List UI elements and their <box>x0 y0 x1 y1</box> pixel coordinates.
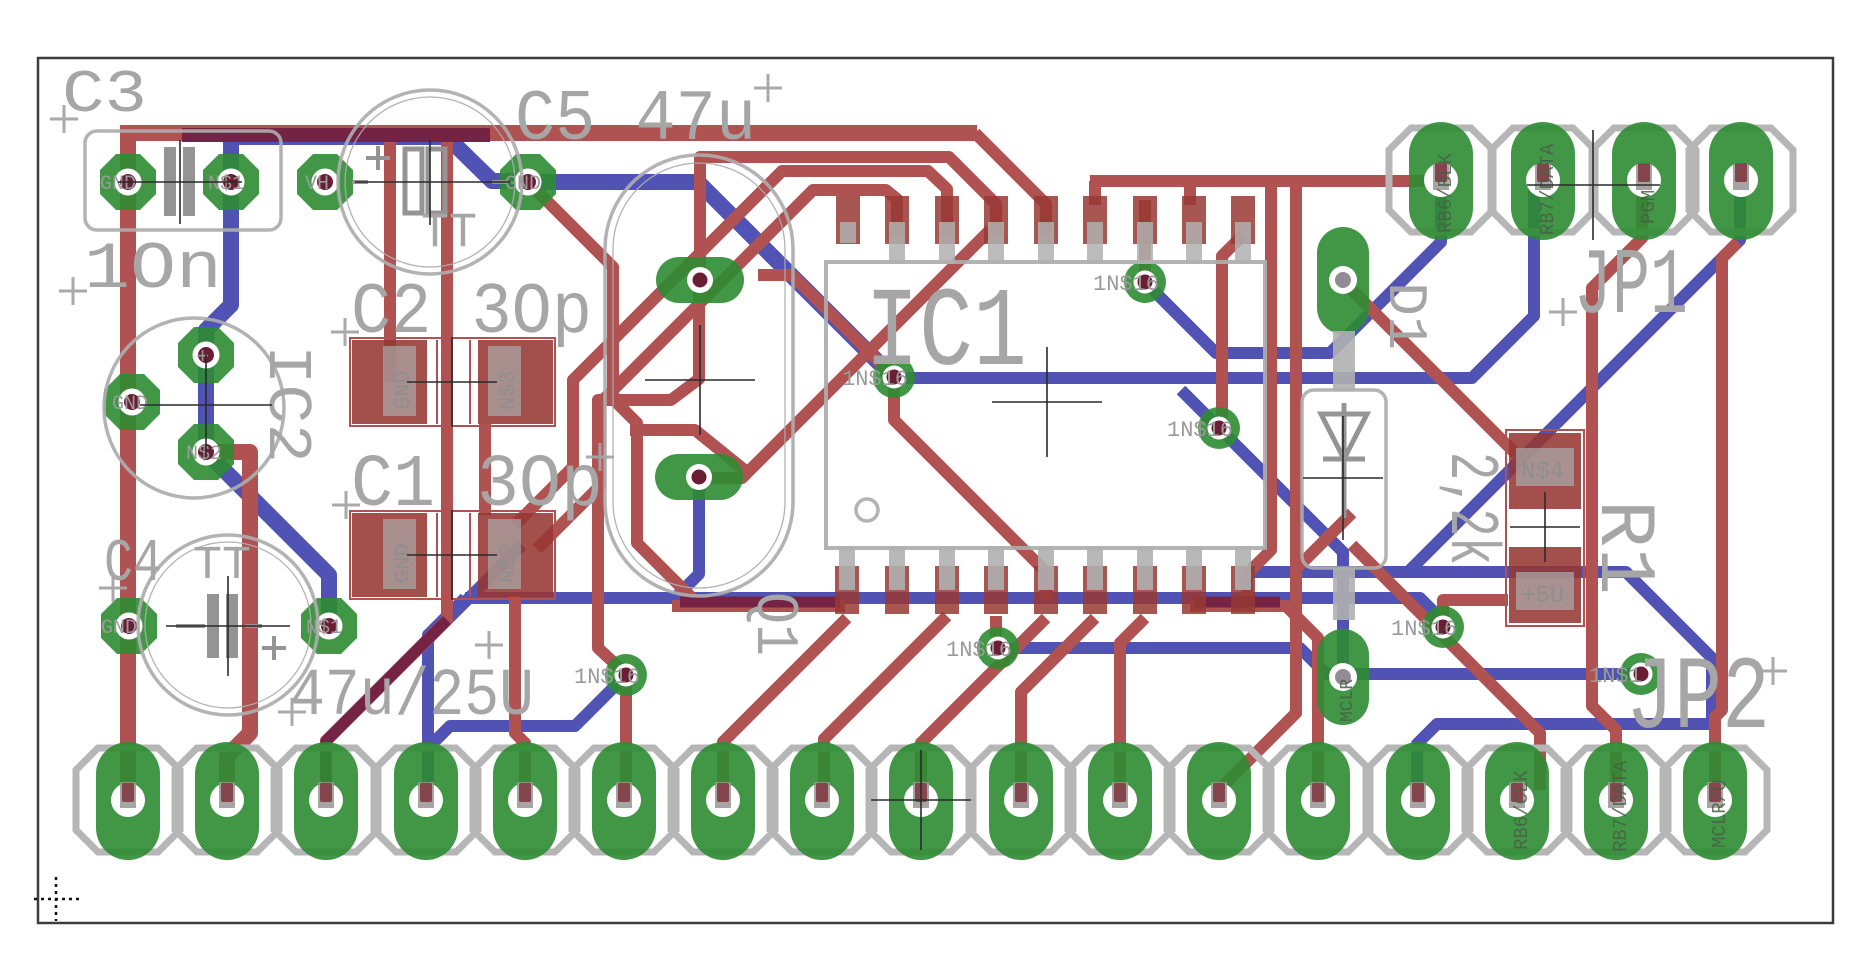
IC1 pin 9 pad <box>1231 566 1255 614</box>
capacitor C2 pads <box>350 338 555 426</box>
IC1 pin 5 pad <box>1034 566 1058 614</box>
node JP1 origin cross <box>1527 130 1660 240</box>
capacitor C3 symbol plates <box>164 147 176 216</box>
svg-text:GND: GND <box>101 617 137 640</box>
wire: red via894 stub up-left <box>758 275 894 377</box>
wire: red JP1 pad3 to JP2 pad16 <box>1592 185 1642 790</box>
node JP2 origin cross <box>871 750 971 850</box>
wire: red JP2 pad15 to via1443 <box>1352 545 1540 790</box>
node C4 origin cross <box>166 576 290 676</box>
wire: red diagonal bundle to IC1 pin3 <box>515 171 947 525</box>
wire: red top band tail into IC1 pin5 <box>975 133 1046 235</box>
svg-text:1N$16: 1N$16 <box>842 367 908 392</box>
svg-text:N$2: N$2 <box>496 543 521 583</box>
wire: red via894 to IC1 pin5 bottom <box>894 377 1046 600</box>
svg-text:R1: R1 <box>1577 500 1668 595</box>
svg-text:+: + <box>196 345 209 370</box>
wire: red IC1 pin7 top to via1145 <box>1139 200 1151 282</box>
wire: red diagonal bundle to IC1 pin2 <box>537 190 897 549</box>
wire: red IC1 pin4 bottom to via998 <box>990 616 1002 648</box>
svg-text:JP1: JP1 <box>1574 235 1688 341</box>
node C3 origin cross <box>118 140 242 224</box>
IC1 pin 17 pad <box>885 196 909 244</box>
crystal Q1 top pad <box>656 257 744 303</box>
svg-text:C5 47u: C5 47u <box>515 79 756 161</box>
wire: blue C3.N$1 to C5.GND top bus (wide) <box>231 137 528 188</box>
node IC1 origin cross <box>992 347 1102 457</box>
JP1 pad octagon outlines <box>1389 128 1793 232</box>
svg-text:1On: 1On <box>84 232 222 307</box>
wire: red JP1 pad4 to JP2 pad17 <box>1715 242 1738 790</box>
diode D1 symbol <box>1321 403 1367 518</box>
capacitor C4 symbol plates <box>207 594 219 658</box>
IC1 pin 2 pad <box>885 566 909 614</box>
svg-text:RB7/DATA: RB7/DATA <box>1537 143 1559 235</box>
wire: blue C3.N$1 down to IC2 (wide) <box>206 188 231 452</box>
wire: blue via1219 to MCLR pad <box>1219 428 1343 677</box>
capacitor C4 outline <box>138 535 318 715</box>
IC1 pin 14 pad <box>1034 196 1058 244</box>
node IC2 origin cross <box>140 355 272 455</box>
wire: red C5.GND diagonal to under-IC bus and JP2 pad13 <box>530 184 1318 790</box>
IC1 pin 15 pad <box>984 196 1008 244</box>
wire: red C5 vertical to C2.GND <box>384 133 396 382</box>
via N$6 d <box>977 627 1019 669</box>
wire: red IC1 pin3 bottom to JP2 pad8 <box>824 616 947 790</box>
JP2 pad hole stubs <box>122 783 1721 802</box>
wire: red GND rail left (wide) <box>120 125 136 790</box>
IC1 pin 1 pad <box>835 566 859 614</box>
svg-text:2,2k: 2,2k <box>1430 452 1509 565</box>
crystal Q1 outline <box>605 155 793 596</box>
wire: blue via1219 stub <box>1181 390 1219 428</box>
svg-text:TT: TT <box>193 540 251 593</box>
svg-text:1N$16: 1N$16 <box>574 665 640 690</box>
wire: red IC1 pin6 bottom to JP2 pad10 <box>1021 618 1095 790</box>
via N$6 b <box>1124 261 1166 303</box>
via N$6 c <box>1198 407 1240 449</box>
svg-text:JP2: JP2 <box>1626 641 1770 759</box>
IC1 pin stubs top <box>840 222 1251 264</box>
svg-text:N$2: N$2 <box>186 443 222 466</box>
IC2 pad in <box>178 327 234 383</box>
IC1 pin 3 pad <box>935 566 959 614</box>
wire: overlap red+blue under-IC bus <box>680 597 1280 608</box>
IC2 pad out <box>178 424 234 480</box>
JP1 pad hole stubs <box>1435 163 1747 182</box>
diode D1 top pad <box>1317 227 1369 334</box>
svg-text:C1 3Op: C1 3Op <box>351 444 603 528</box>
svg-text:MCLR: MCLR <box>1338 679 1358 722</box>
wire: red IC2 out to JP2 pad2 (wide) <box>206 452 250 792</box>
wire: red C1.N$2 to JP2 pad5 <box>515 595 525 792</box>
IC1 pin 10 pad <box>1231 196 1255 244</box>
svg-text:D1: D1 <box>1373 282 1437 350</box>
IC1 pin 12 pad <box>1133 196 1157 244</box>
regulator IC2 outline <box>104 318 284 498</box>
IC2 pad GND <box>104 374 160 430</box>
wire: red IC1 pin1 bottom to JP2 pad7 <box>723 618 847 790</box>
capacitor C1 pads <box>350 511 555 599</box>
via N$6 g <box>1620 653 1662 695</box>
capacitor C4 pad GND <box>101 598 157 654</box>
resistor R1 pads <box>1506 430 1584 626</box>
via N$6 f <box>1422 606 1464 648</box>
JP1 pad holes <box>1424 163 1458 197</box>
wire: overlap red+blue top band <box>182 128 490 142</box>
wire: red crystal top pad to via626 <box>598 282 699 790</box>
capacitor C5 pad GND <box>500 154 556 210</box>
node Q1 origin cross <box>645 325 755 435</box>
node C1 origin cross <box>407 510 497 600</box>
wire: red top band (wide) <box>122 133 977 188</box>
svg-text:1N$16: 1N$16 <box>946 638 1012 663</box>
capacitor C3 pad GND <box>100 154 156 210</box>
wire: red IC1 pin9 to via1219 <box>1222 187 1271 600</box>
wire: blue via to JP1 pad1 <box>1145 185 1441 353</box>
capacitor C4 pad N$1 <box>301 598 357 654</box>
node C5 origin cross <box>355 140 510 225</box>
svg-text:N$1: N$1 <box>306 617 342 640</box>
wire: blue +5V bottom-right run to JP2 pad14 <box>1245 572 1712 790</box>
wire: blue via626 to JP2 pad4 <box>428 675 626 792</box>
JP2 header pads row <box>96 742 1747 860</box>
capacitor C3 pad N$1 <box>203 154 259 210</box>
IC1 pin 7 pad <box>1133 566 1157 614</box>
wire: blue JP1 pad4 long diagonal <box>1408 185 1740 572</box>
node C2 origin cross <box>407 337 497 427</box>
IC1 pin 6 pad <box>1083 566 1107 614</box>
IC1 pin 4 pad <box>984 566 1008 614</box>
svg-text:47u/25U: 47u/25U <box>290 659 534 735</box>
wire: red crystal top pad to IC1 pin4 <box>700 157 996 282</box>
diode D1 stub bottom <box>1333 568 1355 620</box>
svg-text:1N$16: 1N$16 <box>1093 272 1159 297</box>
capacitor C5 outline <box>338 90 522 274</box>
capacitor C3 outline <box>85 131 281 230</box>
diode D1 stub top <box>1333 331 1355 391</box>
svg-text:1N$16: 1N$16 <box>1391 617 1457 642</box>
wire: blue C5.GND to via N$6 diagonal (wide) <box>528 182 894 378</box>
IC1 pin 11 pad <box>1182 196 1206 244</box>
wire: overlap red+blue diagonal to pad3 <box>326 620 447 788</box>
gray plus marks <box>50 105 78 133</box>
node R1 origin cross <box>1510 492 1580 562</box>
svg-text:C2 3Op: C2 3Op <box>351 272 592 354</box>
wire: red D1 top pad to R1.N$4 <box>1343 281 1516 454</box>
diode D1 bottom pad MCLR <box>1317 629 1369 725</box>
svg-text:1N$1: 1N$1 <box>1589 664 1642 689</box>
IC1 body outline <box>826 262 1265 548</box>
wire: blue diagonal under red to JP2 pad3 <box>326 545 522 788</box>
wire: blue crystal pad to under-IC bus <box>428 477 1443 760</box>
svg-text:N$3: N$3 <box>496 370 521 410</box>
IC1 pin 16 pad <box>935 196 959 244</box>
svg-text:N$1: N$1 <box>208 173 244 196</box>
svg-text:RB7/DATA: RB7/DATA <box>1610 760 1632 852</box>
JP2 pad holes <box>111 783 1732 817</box>
JP2 pad octagon outlines <box>76 748 1767 852</box>
node board origin dotted cross <box>34 877 80 921</box>
svg-text:RB6/CLK: RB6/CLK <box>1511 770 1533 850</box>
wire: red crystal bottom pad diagonal to IC1 pin4 <box>699 230 990 478</box>
wire: blue IC2 out to C4.N$1 (wide) <box>206 452 329 626</box>
svg-text:PGM: PGM <box>1638 190 1660 224</box>
svg-text:1N$16: 1N$16 <box>1167 418 1233 443</box>
wire: red vertical to JP2 pad3 (over blue) <box>326 133 447 788</box>
IC1 pin stubs bottom <box>839 546 1251 590</box>
IC1 pin 8 pad <box>1182 566 1206 614</box>
svg-text:MCLR/U: MCLR/U <box>1709 780 1731 848</box>
IC1 pin 1 marker <box>856 499 878 521</box>
svg-text:GND: GND <box>100 173 136 196</box>
JP1 header pads <box>1409 122 1773 240</box>
wire: red IC1 pin7 bottom to JP2 pad11 <box>1120 618 1145 790</box>
diode D1 outline <box>1302 390 1386 568</box>
via N$6 e <box>605 654 647 696</box>
wire: red C2.N$3 to C1 <box>479 424 491 515</box>
svg-text:GND: GND <box>391 543 416 583</box>
svg-text:GND: GND <box>505 173 541 196</box>
wire: red crystal jog horizontal <box>630 430 747 472</box>
wire: blue long horizontal to JP1 pad2 <box>894 185 1534 378</box>
IC1 pin 18 pad <box>836 196 860 244</box>
svg-text:GND: GND <box>391 370 416 410</box>
node D1 origin cross <box>1303 416 1383 540</box>
capacitor C5 symbol <box>405 149 422 213</box>
wire: red via1443 stub to R1 +5U <box>1443 600 1508 627</box>
svg-text:+5U: +5U <box>1521 583 1564 610</box>
IC1 pin 13 pad <box>1083 196 1107 244</box>
wire: blue via998 to via1443 <box>998 648 1359 674</box>
wire: blue MCLR pad to via1641 <box>1344 668 1641 680</box>
capacitor C5 pad + <box>297 154 353 210</box>
svg-text:N$4: N$4 <box>1521 459 1564 486</box>
svg-text:Q1: Q1 <box>739 592 807 656</box>
wire: red top-right bus JP1 pad1 <box>1090 181 1438 792</box>
svg-text:RB6/BLK: RB6/BLK <box>1435 153 1457 233</box>
crystal Q1 bottom pad <box>655 454 743 500</box>
wire: red D1 bottom diagonal to x1296 rail <box>1296 513 1352 569</box>
JP2 pad hole pin glyphs <box>120 782 1723 808</box>
wire: red IC1 pin5 bottom to JP2 pad9 <box>921 618 1046 790</box>
svg-text:VH: VH <box>305 173 329 196</box>
svg-text:IC2: IC2 <box>251 345 322 463</box>
via N$6 a <box>873 356 915 398</box>
